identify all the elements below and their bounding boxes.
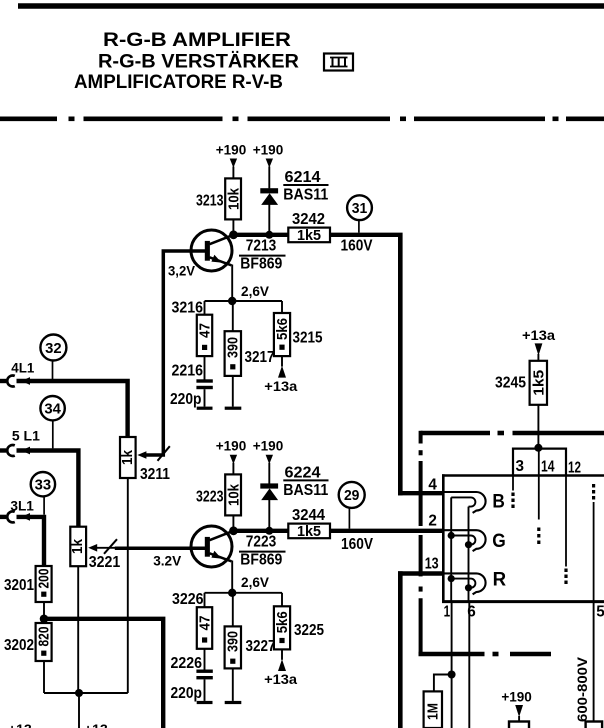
svg-text:29: 29 bbox=[344, 488, 360, 504]
rail right leg bbox=[281, 593, 283, 607]
svg-text:3244: 3244 bbox=[292, 507, 325, 524]
capacitor C2226 220p bbox=[196, 670, 212, 705]
wire R3202 down bbox=[43, 661, 45, 693]
svg-text:+190: +190 bbox=[216, 141, 247, 157]
label 7223 / BF869 bbox=[239, 533, 286, 568]
svg-text:5k6: 5k6 bbox=[274, 318, 291, 340]
socket box bottom edge bbox=[442, 600, 604, 603]
svg-text:10k: 10k bbox=[226, 187, 243, 210]
svg-text:1: 1 bbox=[444, 603, 451, 620]
supply +13a arrow up bbox=[278, 659, 286, 671]
svg-text:3: 3 bbox=[516, 458, 525, 475]
node diode dot bbox=[265, 527, 273, 535]
svg-text:7223: 7223 bbox=[246, 533, 277, 550]
wire R3244 to socket pin 2 bbox=[330, 529, 443, 533]
supply +190 label (right) bbox=[253, 141, 284, 168]
emitter node dot bbox=[228, 589, 236, 597]
terminal bar R3227 bbox=[225, 701, 242, 704]
socket box left edge bbox=[442, 474, 445, 602]
grid line pin 3 bbox=[512, 476, 514, 509]
wire +190 to resistor bbox=[518, 716, 520, 722]
wire R3227 to terminal bbox=[232, 668, 234, 701]
heater chain left vertical bbox=[450, 497, 452, 601]
title text bbox=[74, 30, 299, 93]
module border dash-dot left vertical bbox=[419, 431, 423, 654]
resistor R3227 390 bbox=[225, 626, 242, 668]
G grid electrode bbox=[444, 530, 486, 551]
label 7213 / BF869 bbox=[239, 237, 286, 272]
wire supply to D6214 bbox=[268, 167, 270, 189]
wire R3201 to node bbox=[43, 602, 45, 619]
svg-text:+190: +190 bbox=[253, 438, 284, 454]
resistor R3223 10k bbox=[196, 474, 243, 515]
wire R3216 to C2216 bbox=[204, 356, 206, 379]
emitter wire down bbox=[231, 561, 233, 593]
wire pin 6 down bbox=[468, 602, 470, 728]
socket box top edge bbox=[442, 474, 604, 477]
pot 3221 bottom lead bbox=[77, 566, 79, 693]
svg-text:160V: 160V bbox=[341, 238, 374, 255]
junction dot pin1/1M bbox=[448, 671, 456, 679]
resistor R3202 820 bbox=[35, 623, 52, 661]
test point circle 32 bbox=[40, 335, 66, 380]
heater chain right vertical bbox=[468, 507, 470, 602]
svg-text:5k6: 5k6 bbox=[274, 611, 291, 633]
potentiometer R3221 1k bbox=[69, 527, 86, 567]
terminal bar R3217 bbox=[225, 407, 242, 410]
supply +190 label (right) bbox=[253, 438, 284, 465]
svg-text:1k: 1k bbox=[119, 449, 136, 465]
wire collector node to R3242 bbox=[234, 233, 289, 237]
svg-text:390: 390 bbox=[225, 631, 242, 652]
emitter node dot bbox=[228, 297, 236, 305]
test point circle 29 bbox=[339, 482, 365, 529]
svg-text:3211: 3211 bbox=[140, 466, 170, 483]
svg-text:1k5: 1k5 bbox=[530, 370, 547, 396]
svg-text:R: R bbox=[493, 570, 507, 591]
svg-text:10k: 10k bbox=[226, 483, 243, 506]
supply +190 label (left) bbox=[216, 141, 247, 168]
svg-text:3.2V: 3.2V bbox=[153, 553, 182, 569]
supply +13a label top bbox=[522, 327, 555, 356]
wire +13a to R3245 bbox=[537, 354, 539, 361]
label 6224 / BAS11 bbox=[283, 464, 328, 499]
svg-text:BF869: BF869 bbox=[240, 551, 282, 568]
svg-text:600-800V: 600-800V bbox=[575, 657, 590, 722]
emitter rail bbox=[205, 300, 283, 302]
svg-text:3202: 3202 bbox=[4, 637, 34, 654]
svg-text:G: G bbox=[492, 531, 506, 552]
wire 3L1 to R3201 bbox=[17, 517, 45, 566]
wire collector node to R3244 bbox=[234, 529, 289, 533]
wiper wire 3221 bbox=[88, 539, 117, 554]
wire pin 4 row bbox=[398, 491, 443, 495]
heater junction dots bbox=[448, 532, 455, 539]
grid line pin 12 bbox=[565, 476, 567, 585]
B cathode/heater bbox=[451, 497, 475, 506]
svg-text:3225: 3225 bbox=[294, 622, 324, 639]
svg-text:4: 4 bbox=[428, 477, 437, 494]
wire 5L1 to pot 3221 bbox=[17, 451, 79, 527]
emitter rail bbox=[205, 592, 283, 594]
pin bracket 3-14-12 bbox=[513, 449, 566, 475]
resistor R3242 1k5 bbox=[288, 211, 330, 244]
svg-text:5 L1: 5 L1 bbox=[12, 428, 41, 443]
wire R3225 to +13a bbox=[281, 649, 283, 659]
resistor R1M bbox=[424, 691, 442, 728]
svg-text:31: 31 bbox=[352, 201, 368, 217]
test point circle 31 bbox=[347, 195, 372, 232]
wire pin 1 down bbox=[451, 602, 453, 728]
svg-text:3201: 3201 bbox=[4, 577, 34, 594]
resistor R3244 1k5 bbox=[288, 507, 330, 540]
wire node to R stage below bbox=[44, 619, 163, 728]
wire pin 13 row bbox=[398, 571, 443, 575]
wire supply to D6224 bbox=[268, 463, 270, 484]
svg-text:B: B bbox=[492, 491, 505, 512]
test point circle 33 bbox=[31, 472, 55, 515]
B grid electrode bbox=[444, 492, 486, 513]
svg-text:3221: 3221 bbox=[89, 554, 121, 571]
svg-text:1k: 1k bbox=[69, 538, 86, 554]
svg-text:160V: 160V bbox=[341, 536, 374, 553]
node collector dot bbox=[229, 526, 238, 535]
rail right leg bbox=[281, 301, 283, 313]
wire R3245 to socket bbox=[537, 405, 539, 449]
emitter wire down bbox=[231, 265, 233, 302]
svg-text:+13: +13 bbox=[84, 721, 108, 728]
resistor R3245 1k5 bbox=[495, 361, 547, 405]
wiper wire base Q7213 bbox=[137, 251, 206, 461]
svg-text:47: 47 bbox=[196, 616, 213, 631]
supply +190 label bottom bbox=[501, 688, 532, 717]
wire to R1M bbox=[434, 675, 452, 692]
junction dot bottom rail bbox=[75, 689, 83, 697]
svg-text:+190: +190 bbox=[501, 688, 532, 704]
module border dash-dot top bbox=[421, 431, 604, 436]
transistor Q7213 BF869 bbox=[191, 230, 234, 271]
svg-text:5: 5 bbox=[596, 603, 604, 620]
svg-text:BAS11: BAS11 bbox=[283, 482, 328, 499]
resistor top right clipped bbox=[586, 722, 603, 728]
supply +190 label (left) bbox=[216, 438, 247, 465]
wire R3226 to C2226 bbox=[204, 649, 206, 670]
test point circle 34 bbox=[40, 396, 64, 448]
wire R3242 to corner bbox=[330, 233, 398, 237]
svg-text:+13a: +13a bbox=[264, 671, 297, 687]
svg-text:220p: 220p bbox=[171, 685, 203, 702]
svg-text:220p: 220p bbox=[170, 391, 202, 408]
wire supply to R3213 bbox=[232, 167, 234, 179]
svg-text:1k5: 1k5 bbox=[297, 523, 321, 540]
svg-text:R-G-B VERSTÄRKER: R-G-B VERSTÄRKER bbox=[98, 52, 299, 73]
svg-text:3217: 3217 bbox=[245, 349, 275, 366]
svg-text:3,2V: 3,2V bbox=[168, 263, 196, 279]
rail left leg bbox=[204, 593, 206, 607]
connector 4L1 bbox=[0, 376, 30, 387]
svg-text:+190: +190 bbox=[253, 141, 284, 157]
junction dot 3245/pins bbox=[534, 444, 542, 452]
resistor R3226 47 bbox=[196, 607, 213, 649]
wire pin 5 down bbox=[593, 602, 595, 722]
svg-text:1k5: 1k5 bbox=[297, 227, 321, 244]
grid line pin 14 bbox=[538, 448, 540, 544]
svg-text:3226: 3226 bbox=[172, 591, 204, 608]
supply +13a arrow up bbox=[278, 366, 286, 378]
svg-text:47: 47 bbox=[196, 323, 213, 338]
G cathode/heater bbox=[451, 536, 475, 545]
diode D6224 BAS11 bbox=[260, 483, 278, 530]
wire supply to R3223 bbox=[232, 463, 234, 475]
svg-text:6214: 6214 bbox=[285, 169, 321, 186]
node diode dot bbox=[265, 231, 273, 239]
svg-text:3242: 3242 bbox=[292, 211, 325, 228]
wire junction down bbox=[78, 693, 80, 728]
wire R stage up from below bbox=[398, 571, 403, 728]
svg-text:820: 820 bbox=[35, 627, 52, 647]
svg-text:1M: 1M bbox=[425, 703, 442, 720]
version box III bbox=[324, 54, 353, 71]
grid line pin 5 bbox=[593, 484, 595, 602]
svg-text:BF869: BF869 bbox=[240, 255, 282, 272]
svg-text:+13: +13 bbox=[8, 721, 32, 728]
svg-text:2,6V: 2,6V bbox=[241, 283, 270, 299]
diode D6214 BAS11 bbox=[260, 188, 278, 235]
resistor R3225 5k6 bbox=[274, 606, 291, 649]
svg-text:32: 32 bbox=[45, 341, 62, 357]
svg-text:33: 33 bbox=[35, 477, 52, 493]
svg-text:+190: +190 bbox=[216, 438, 247, 454]
svg-text:3227: 3227 bbox=[246, 638, 276, 655]
wire base Q7223 bbox=[115, 547, 206, 551]
svg-text:6224: 6224 bbox=[285, 464, 321, 481]
pot 3211 bottom lead bbox=[127, 478, 129, 693]
svg-text:34: 34 bbox=[44, 401, 61, 417]
top border rule bbox=[18, 3, 604, 9]
svg-text:3245: 3245 bbox=[495, 374, 526, 391]
resistor R3215 5k6 bbox=[274, 313, 291, 356]
wire R3213 to node bbox=[232, 219, 234, 234]
R cathode/heater bbox=[451, 579, 475, 588]
dash-dot separator rule bbox=[0, 117, 604, 122]
svg-text:+13a: +13a bbox=[522, 327, 555, 343]
wire R3223 to node bbox=[232, 515, 234, 530]
emitter mid leg bbox=[232, 301, 234, 331]
connector 5L1 bbox=[0, 445, 30, 456]
svg-text:13: 13 bbox=[425, 556, 439, 573]
svg-text:+13a: +13a bbox=[264, 378, 297, 394]
resistor R3213 10k bbox=[196, 178, 243, 219]
connector 3L1 bbox=[0, 511, 30, 522]
rail left leg bbox=[204, 301, 206, 315]
svg-text:R-G-B AMPLIFIER: R-G-B AMPLIFIER bbox=[103, 30, 291, 51]
svg-text:4L1: 4L1 bbox=[11, 361, 34, 376]
resistor R3201 200 bbox=[35, 566, 52, 602]
node collector dot bbox=[229, 230, 238, 239]
potentiometer R3211 1k bbox=[119, 437, 136, 478]
svg-text:3223: 3223 bbox=[196, 489, 224, 506]
module border dash-dot bottom bbox=[419, 652, 552, 657]
resistor R3216 47 bbox=[196, 315, 213, 356]
svg-text:200: 200 bbox=[35, 569, 52, 589]
resistor bottom clipped bbox=[509, 722, 529, 728]
wire R3215 to +13a bbox=[281, 356, 283, 366]
wire 160V down to pin4 bbox=[398, 233, 403, 496]
wire R3217 to terminal bbox=[232, 376, 234, 407]
svg-text:7213: 7213 bbox=[246, 237, 277, 254]
transistor Q7223 BF869 bbox=[191, 526, 234, 567]
svg-text:3213: 3213 bbox=[196, 193, 224, 210]
R grid electrode bbox=[444, 573, 486, 594]
wire 4L1 to pot 3211 bbox=[17, 381, 128, 437]
svg-text:2: 2 bbox=[428, 513, 437, 530]
svg-text:AMPLIFICATORE R-V-B: AMPLIFICATORE R-V-B bbox=[74, 72, 283, 93]
bottom rail wire bbox=[44, 692, 128, 694]
resistor R3217 390 bbox=[225, 331, 242, 376]
svg-text:12: 12 bbox=[568, 459, 581, 476]
svg-text:390: 390 bbox=[225, 337, 242, 358]
emitter mid leg bbox=[232, 593, 234, 627]
svg-text:2,6V: 2,6V bbox=[241, 574, 270, 590]
svg-text:3215: 3215 bbox=[293, 330, 323, 347]
node dot 3201/3202 bbox=[40, 615, 49, 624]
capacitor C2216 220p bbox=[196, 379, 212, 410]
svg-text:BAS11: BAS11 bbox=[283, 187, 328, 204]
label 6214 / BAS11 bbox=[283, 169, 328, 204]
svg-text:14: 14 bbox=[541, 459, 555, 476]
svg-text:2216: 2216 bbox=[172, 363, 204, 380]
